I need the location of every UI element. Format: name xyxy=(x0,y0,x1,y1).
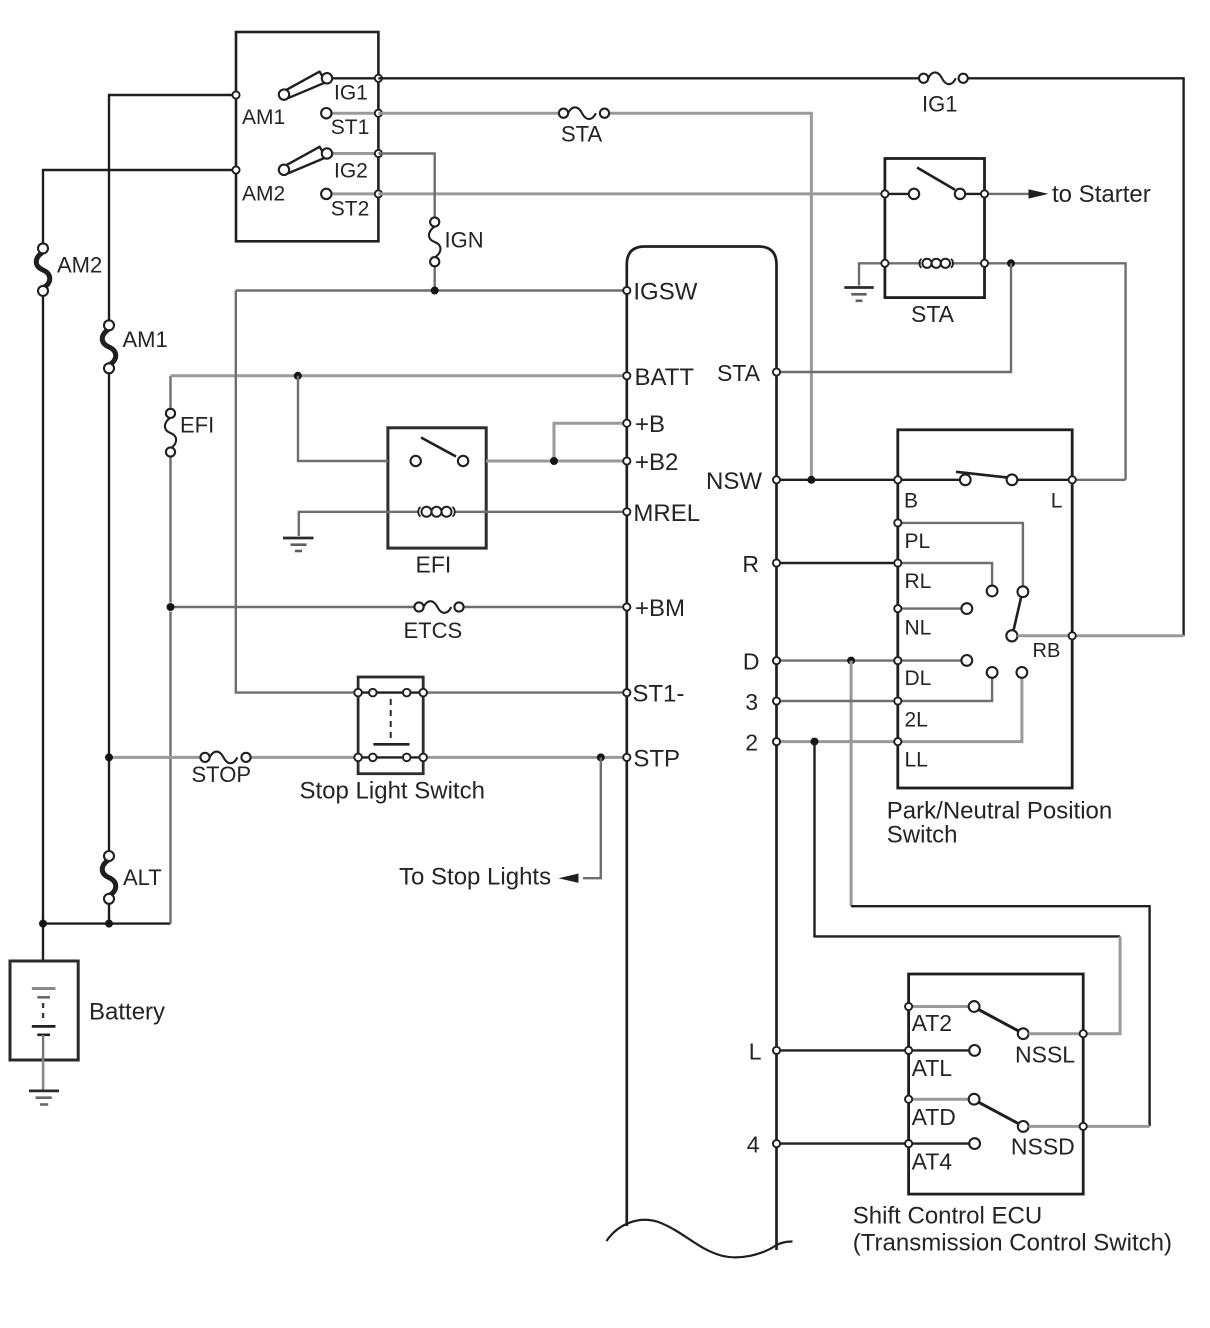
ground symbol below battery xyxy=(29,1091,59,1105)
wire IG2 contact to box edge (gray) xyxy=(327,152,378,155)
wire stop light switch to ECM ST1- pin xyxy=(427,691,627,693)
switch arm AM1-IG1 xyxy=(286,72,326,98)
STA relay pins on box edges xyxy=(881,190,888,197)
pin ST2 on box edge xyxy=(375,190,382,197)
pin AM2 on box edge xyxy=(232,166,239,173)
pin L on box edge xyxy=(1069,476,1076,483)
ECM pin 4 xyxy=(773,1140,780,1147)
svg-text:BATT: BATT xyxy=(635,364,695,391)
wire STOP/STP row: AM1 column junction to fuse to stop light switch xyxy=(109,756,200,759)
ECM pin ST1- xyxy=(623,689,630,696)
wire AM2 feed: ignition AM2 pin left and down column x=43 xyxy=(43,170,236,244)
contact circle ST2 xyxy=(321,189,331,199)
junction dot IGN/IGSW xyxy=(431,287,439,295)
ECM pin 2 xyxy=(773,738,780,745)
wire +B branch riser xyxy=(554,423,627,461)
ground symbol STA relay xyxy=(844,288,873,301)
svg-text:STA: STA xyxy=(717,360,761,386)
svg-text:STA: STA xyxy=(561,121,602,146)
svg-text:AM2: AM2 xyxy=(242,183,285,206)
wire L to STA coil riser xyxy=(1072,479,1125,481)
junction dot STP / to-stop-lights branch xyxy=(597,753,605,761)
pin AT4 on box edge xyxy=(905,1140,912,1147)
wire DL to contact xyxy=(898,659,961,661)
pin ATD on box edge xyxy=(905,1096,912,1103)
svg-text:ALT: ALT xyxy=(123,865,162,890)
svg-text:Park/Neutral Position: Park/Neutral Position xyxy=(887,797,1112,824)
wire AT2 to pivot xyxy=(909,1005,969,1008)
wire BATT row to ECM BATT pin xyxy=(171,374,627,377)
junction dot +B/+B2 branch xyxy=(550,457,558,465)
svg-text:To Stop Lights: To Stop Lights xyxy=(399,864,551,891)
pivot circle AM1 xyxy=(279,89,289,99)
fusible link AM2 xyxy=(36,243,50,296)
contact circle AT4 end xyxy=(969,1138,980,1149)
svg-text:2L: 2L xyxy=(905,708,928,731)
stop light switch plunger dashed stem and bar xyxy=(390,699,392,740)
svg-text:Stop Light Switch: Stop Light Switch xyxy=(300,777,485,804)
svg-text:NSW: NSW xyxy=(706,468,762,495)
contact circle NL end xyxy=(961,603,972,614)
wire EFI relay switch left to BATT junction riser xyxy=(298,376,388,461)
pin DL xyxy=(894,657,901,664)
contact circle NSSL end xyxy=(1018,1028,1029,1039)
contact circle AT2 pivot xyxy=(969,1001,980,1012)
switch blade AT2-NSSL xyxy=(979,1010,1020,1032)
wire 4 row: ECM 4 pin to AT4 pin xyxy=(777,1142,909,1144)
contact circle IG1 xyxy=(322,73,332,83)
svg-text:ETCS: ETCS xyxy=(404,618,463,643)
junction dot ALT column at battery row xyxy=(105,920,113,928)
switch arm AM2-IG2 xyxy=(286,147,326,173)
arrow to Starter xyxy=(1029,189,1049,198)
contact circle IG2 xyxy=(322,148,332,158)
svg-text:AM1: AM1 xyxy=(242,106,285,129)
svg-text:4: 4 xyxy=(747,1132,760,1158)
pin IG1 on box edge xyxy=(375,75,382,82)
ECM tear wave at bottom xyxy=(607,1220,793,1257)
wire ST1 contact to box edge (gray) xyxy=(326,112,378,115)
contact circle ATL end xyxy=(969,1045,980,1056)
wire battery junction row to EFI column riser xyxy=(43,922,171,924)
STA relay box xyxy=(885,159,985,298)
switch blade ATD-NSSD xyxy=(979,1102,1020,1124)
wire PL to selector contact xyxy=(898,523,1023,586)
contact circle PL end xyxy=(1018,586,1029,597)
ground symbol EFI relay xyxy=(283,538,314,551)
svg-text:+BM: +BM xyxy=(635,595,685,622)
EFI relay switch contacts and blade xyxy=(411,438,469,467)
STA relay coil xyxy=(885,259,985,268)
svg-text:ST2: ST2 xyxy=(331,197,370,220)
svg-text:+B: +B xyxy=(635,411,665,438)
svg-text:Battery: Battery xyxy=(89,999,165,1026)
wire RB row to IG1 riser xyxy=(1018,634,1184,637)
wire NSSL row to box edge xyxy=(1029,1032,1084,1035)
wire ALT column below link to battery junction row xyxy=(108,904,110,924)
svg-text:RB: RB xyxy=(1033,640,1061,662)
svg-text:R: R xyxy=(742,551,759,577)
svg-text:PL: PL xyxy=(905,530,931,553)
wire IGSW row: corner x=235.8 to ECM IGSW pin xyxy=(236,289,627,291)
svg-text:EFI: EFI xyxy=(416,552,452,578)
svg-text:IG1: IG1 xyxy=(922,92,957,117)
junction dot STP row on AM1 column xyxy=(105,753,113,761)
svg-text:AT2: AT2 xyxy=(912,1010,952,1036)
wire to stop lights branch xyxy=(583,757,601,878)
svg-text:AM2: AM2 xyxy=(57,253,102,278)
ECM pin STP xyxy=(623,754,630,761)
svg-text:DL: DL xyxy=(905,667,932,690)
wire EFI relay coil left to ground xyxy=(299,512,388,536)
junction dot D / NSSD riser xyxy=(847,657,855,665)
ECM pin L xyxy=(773,1047,780,1054)
pin B on box edge xyxy=(894,476,901,483)
fuse STA xyxy=(559,107,609,119)
svg-text:EFI: EFI xyxy=(180,413,214,438)
wire STA relay coil right to L riser xyxy=(985,263,1126,480)
wire ETCS row: EFI column junction to fuse to ECM +BM pin xyxy=(171,606,415,608)
ECM pin 3 xyxy=(773,697,780,704)
battery cell plates xyxy=(32,989,56,1061)
ECM pin NSW xyxy=(773,476,780,483)
ECM pin +B2 xyxy=(623,457,630,464)
svg-text:2: 2 xyxy=(745,730,758,756)
wire IG1 contact to box edge xyxy=(327,77,378,79)
pin PL xyxy=(894,519,901,526)
wire EFI column between ETCS junction and EFI fuse bottom xyxy=(169,457,171,603)
svg-text:+B2: +B2 xyxy=(635,449,678,476)
wire EFI relay switch right to ECM +B2 pin xyxy=(486,460,627,463)
svg-text:IG1: IG1 xyxy=(334,82,368,105)
pin ST1 on box edge xyxy=(375,110,382,117)
battery box xyxy=(10,961,78,1060)
fuse STOP xyxy=(200,752,250,764)
wire B-L row inside xyxy=(898,479,960,481)
ECM pin STA xyxy=(773,368,780,375)
EFI relay coil xyxy=(388,507,486,517)
wire ST2 net: ignition ST2 pin to starter relay switch xyxy=(378,192,885,195)
pin NL xyxy=(894,605,901,612)
ECM pin D xyxy=(773,657,780,664)
svg-text:B: B xyxy=(904,489,918,512)
svg-text:NSSD: NSSD xyxy=(1011,1133,1075,1159)
wire D row: ECM D pin to DL pin xyxy=(777,659,898,661)
wire STA relay output to starter arrow xyxy=(985,193,1031,195)
svg-text:AT4: AT4 xyxy=(912,1148,953,1174)
contact circle RB pivot xyxy=(1006,630,1017,641)
pin IG2 on box edge xyxy=(375,150,382,157)
svg-text:(Transmission Control Switch): (Transmission Control Switch) xyxy=(853,1229,1172,1256)
junction dot NSW / ST1 riser xyxy=(807,476,815,484)
wire 2 row: ECM 2 pin to LL pin xyxy=(777,740,898,743)
junction dot battery column xyxy=(39,920,47,928)
wire 2L to contact xyxy=(898,678,992,701)
pin LL xyxy=(894,738,901,745)
svg-text:to Starter: to Starter xyxy=(1052,181,1151,208)
wire EFI relay coil right to ECM MREL pin xyxy=(486,511,627,513)
park/neutral position switch box xyxy=(898,430,1072,788)
svg-text:AM1: AM1 xyxy=(123,327,168,352)
wire NSW row: ECM NSW pin to park/neutral B pin xyxy=(777,479,898,481)
arrow to stop lights xyxy=(559,874,579,883)
svg-text:3: 3 xyxy=(745,689,758,715)
wire D net riser to NSSD xyxy=(850,661,853,907)
shift control ECU box xyxy=(909,974,1084,1194)
contact circle ATD pivot xyxy=(969,1094,980,1105)
svg-text:IG2: IG2 xyxy=(334,160,368,183)
wire LL to contact xyxy=(898,678,1022,742)
fuse IG1 xyxy=(919,72,968,84)
selector blade PL-RB xyxy=(1014,596,1022,631)
contact circle RL end xyxy=(987,586,998,597)
ECM pin R xyxy=(773,559,780,566)
svg-text:ATL: ATL xyxy=(912,1055,953,1081)
pivot circle AM2 xyxy=(279,165,289,175)
wire R row: ECM R pin to RL pin xyxy=(777,562,898,564)
svg-text:L: L xyxy=(1051,490,1063,513)
fuse IGN xyxy=(429,217,441,266)
pin AT2 on box edge xyxy=(905,1003,912,1010)
svg-text:STA: STA xyxy=(911,301,955,327)
wire EFI column riser from battery row up to ETCS junction xyxy=(169,612,171,924)
svg-text:ATD: ATD xyxy=(912,1104,956,1130)
wire AM1 feed: ignition AM1 pin left and down column x=109 xyxy=(109,95,236,321)
fusible link ALT xyxy=(102,851,116,904)
contact circle 2L end xyxy=(987,667,998,678)
svg-text:STOP: STOP xyxy=(192,762,252,787)
wire ATL inner xyxy=(909,1049,970,1051)
ECM pin BATT xyxy=(623,372,630,379)
contact circle L side xyxy=(1007,474,1018,485)
wire EFI fuse top to BATT row xyxy=(169,376,171,409)
svg-text:L: L xyxy=(749,1038,762,1064)
pin AM1 on box edge xyxy=(232,91,239,98)
pin 2L xyxy=(894,697,901,704)
wire ST1 net: ignition ST1 pin to STA fuse and down to NSW junction xyxy=(378,112,559,115)
ECM pin IGSW xyxy=(623,287,630,294)
svg-text:RL: RL xyxy=(905,570,932,593)
wire IG2 net: ignition IG2 pin right then down to IGN fuse xyxy=(378,154,434,218)
stop light switch contact circles top row xyxy=(354,689,362,697)
ignition switch box xyxy=(236,32,378,241)
STA relay switch row inside xyxy=(885,193,914,195)
svg-text:Shift Control ECU: Shift Control ECU xyxy=(853,1203,1042,1230)
junction dot ETCS row on EFI column xyxy=(167,603,175,611)
wire IG1 net: ignition IG1 pin to fuse, then right edge riser down to RB row xyxy=(378,77,919,79)
wire 3 row: ECM 3 pin to 2L pin xyxy=(777,700,898,702)
wire AT4 inner xyxy=(909,1142,970,1144)
ECM pin +BM xyxy=(623,603,630,610)
contact circle B side xyxy=(960,474,971,485)
junction dot STA coil / ECM STA branch xyxy=(1007,259,1015,267)
stop light switch internal rows xyxy=(358,691,423,693)
pin NSSD on box edge xyxy=(1080,1123,1087,1130)
ECM pin +B xyxy=(623,420,630,427)
fuse ETCS xyxy=(414,601,463,613)
wire ECM STA branch riser xyxy=(777,263,1012,372)
wire IGN fuse bottom to IGSW row xyxy=(434,266,436,291)
STA relay switch blade xyxy=(917,168,955,190)
contact circle DL end xyxy=(961,655,972,666)
stop light switch box xyxy=(358,677,423,774)
wire RL to contact xyxy=(898,563,992,586)
svg-text:IGSW: IGSW xyxy=(633,279,697,306)
pin ATL on box edge xyxy=(905,1047,912,1054)
wire ST1- riser from IGSW corner down to stop light switch row xyxy=(236,291,355,693)
wire NSSD row to box edge xyxy=(1029,1125,1084,1128)
junction dot 2 / NSSL riser xyxy=(811,738,819,746)
svg-text:ST1-: ST1- xyxy=(632,681,684,708)
svg-text:D: D xyxy=(743,649,760,675)
junction dot BATT/EFI-relay branch xyxy=(294,372,302,380)
svg-text:NL: NL xyxy=(905,617,932,640)
pin NSSL on box edge xyxy=(1080,1030,1087,1037)
wire AM2 column below fusible link to battery junction xyxy=(42,296,44,924)
ECM connector outline (rounded, open bottom with tear) xyxy=(627,247,777,1251)
battery ground stem xyxy=(42,1060,45,1091)
ECM pin MREL xyxy=(623,508,630,515)
pin RL xyxy=(894,559,901,566)
wire NL to contact xyxy=(898,607,961,609)
contact circle NSSD end xyxy=(1018,1121,1029,1132)
fusible link AM1 xyxy=(102,320,116,373)
wire ATD to pivot xyxy=(909,1098,969,1101)
contact circle LL end xyxy=(1017,667,1028,678)
switch blade B-L xyxy=(956,472,1010,478)
svg-text:LL: LL xyxy=(905,749,928,772)
wire L row: ECM L pin to ATL pin xyxy=(777,1049,909,1051)
EFI relay box xyxy=(388,428,486,548)
wire AM1 column below fusible link down to STOP row xyxy=(108,373,110,851)
STA relay switch contacts xyxy=(909,189,919,199)
svg-text:Switch: Switch xyxy=(887,821,958,848)
pin RB on box edge xyxy=(1069,632,1076,639)
svg-text:STP: STP xyxy=(633,745,680,772)
svg-text:NSSL: NSSL xyxy=(1015,1041,1075,1067)
wire STA relay coil left to ground xyxy=(859,263,885,285)
wire stop light switch right to ECM STP pin xyxy=(427,756,627,759)
fuse EFI xyxy=(165,409,176,457)
svg-text:MREL: MREL xyxy=(633,500,700,527)
wire ST2 contact to box edge (gray) xyxy=(326,192,378,195)
svg-text:IGN: IGN xyxy=(445,228,484,253)
svg-text:ST1: ST1 xyxy=(331,116,370,139)
contact circle ST1 xyxy=(321,108,331,118)
stop light switch contact circles bottom row xyxy=(354,754,362,762)
wire 2 net riser to NSSL xyxy=(815,742,1121,937)
wire battery positive stem xyxy=(42,924,44,988)
